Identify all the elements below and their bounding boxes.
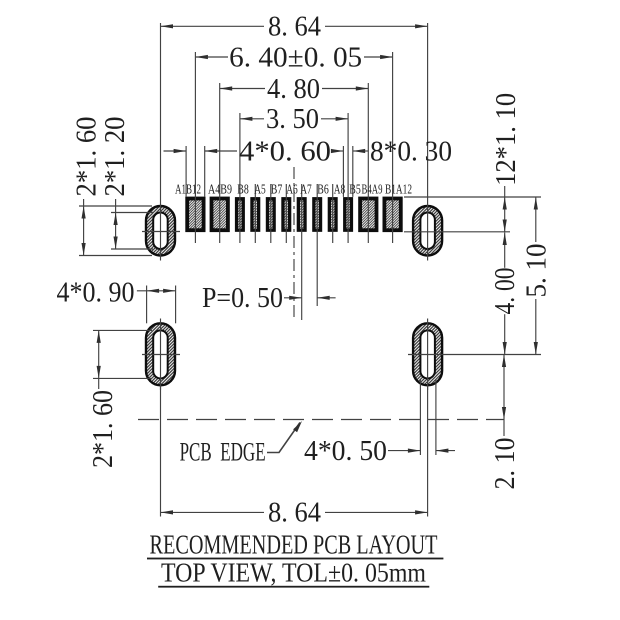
svg-text:8*0. 30: 8*0. 30 [370,136,452,167]
dimension 8.64 top line [161,25,265,27]
extension line pad A1B12 center (6.40 dim) [194,52,196,243]
svg-text:4. 00: 4. 00 [490,268,521,315]
pad B7 [267,199,274,230]
svg-text:2*1. 60: 2*1. 60 [88,390,119,468]
svg-text:PCB EDGE: PCB EDGE [180,437,266,466]
svg-text:A6: A6 [286,183,298,198]
svg-text:A1B12: A1B12 [175,183,201,198]
centerline right ovals stub above bottom oval [427,319,429,391]
dimension 2*1.60 bottom-left line [98,330,100,389]
pad B5 [345,199,352,230]
dimension 8*0.30 arrows [333,150,343,152]
svg-text:2*1. 20: 2*1. 20 [100,117,131,197]
centerline left bottom oval down to dim [160,385,162,516]
dimension P=0.50 arrows [284,297,302,299]
dimension 4.80 line [220,88,265,90]
dimension 12*1.10 line [504,186,506,232]
pad B4A9 [360,199,376,231]
svg-text:8. 64: 8. 64 [268,12,321,43]
svg-text:3. 50: 3. 50 [266,104,319,135]
centerline pad A8 [332,184,334,243]
crosshair top-left oval horizontal [142,231,180,233]
extension line bottom-right oval center [408,354,541,356]
svg-text:B1A12: B1A12 [385,183,412,198]
dimension 2*1.60 top-left line [83,199,85,256]
plated slot hole top-left inner slot [153,213,168,250]
svg-text:RECOMMENDED PCB LAYOUT: RECOMMENDED PCB LAYOUT [150,530,438,560]
svg-text:A7: A7 [300,183,312,198]
extension line pad B1A12 center (6.40 dim) [392,52,394,243]
dimension 8.64 bottom line [161,511,265,513]
extension line bottom-left oval slot top [93,329,152,331]
svg-text:4*0. 90: 4*0. 90 [57,277,135,308]
svg-text:B5: B5 [349,183,361,198]
dimension 6.40±0.05 line [195,56,228,58]
svg-text:12*1. 10: 12*1. 10 [491,93,522,186]
svg-text:A8: A8 [334,183,346,198]
svg-text:P=0. 50: P=0. 50 [202,283,283,314]
extension line pads bottom edge / top-right oval center [404,231,510,233]
plated slot hole bottom-right inner slot [420,330,435,378]
svg-text:B8: B8 [237,183,249,198]
dimension 3.50 line [240,118,264,120]
title underline 2 [158,586,429,588]
title underline 1 [147,558,443,560]
PCB EDGE leader arrow [267,423,300,453]
svg-text:2*1. 60: 2*1. 60 [72,117,103,197]
dimension 4*0.60 arrows [164,150,187,152]
plated slot hole top-right outer pad [413,206,442,256]
svg-text:2. 10: 2. 10 [490,438,521,490]
extension line bottom-left oval slot bottom [93,377,152,379]
PCB edge dashed line [138,419,504,421]
crosshair bottom-left oval horizontal [142,354,180,356]
centerline left ovals vertical top [160,23,162,261]
dimension 2*1.20 line [115,199,117,249]
svg-text:B4A9: B4A9 [362,183,383,198]
extension line pad B4A9 center (4.80 dim) [367,83,369,243]
centerline right ovals vertical top [427,23,429,261]
extension line 4*0.90 right [175,286,177,324]
dimension 5.10 line [535,197,537,242]
extension line 4*0.50 left (slot width) [419,380,421,456]
extension line pad A4B9 center (4.80 dim) [219,83,221,243]
plated slot hole top-right inner slot [420,213,435,250]
extension line pad B5 right edge (8*0.30) [352,146,354,197]
pad A6 [283,199,290,230]
svg-text:B7: B7 [271,183,283,198]
svg-text:B6: B6 [317,183,329,198]
extension line top-left oval outer top [79,205,152,207]
centerline pad B7 [270,184,272,243]
pad A7 [298,199,305,230]
extension line 4*0.50 right (slot width) [435,380,437,456]
centerline left ovals stub above bottom oval [160,319,162,391]
plated slot hole top-left outer pad [146,206,175,256]
svg-text:4*0. 60: 4*0. 60 [239,136,331,167]
plated slot hole bottom-left outer pad [146,323,175,385]
centerline pad A5 [254,184,256,243]
extension line pads top edge right [404,196,541,198]
plated slot hole bottom-left inner slot [153,330,168,378]
pad B6 [314,199,321,230]
dimension 4*0.90 line [137,290,176,292]
pad B8 [237,199,244,230]
svg-text:A4B9: A4B9 [208,183,232,198]
dimension 4.00 line [504,233,506,268]
extension line pad A1B12 right edge (4*0.60) [204,146,206,197]
svg-text:8. 64: 8. 64 [268,498,321,529]
pad A5 [252,199,259,230]
svg-text:A5: A5 [254,183,266,198]
svg-text:4. 80: 4. 80 [267,74,320,105]
centerline right bottom oval down to dim [427,385,429,516]
extension line pad B5 center (3.50 dim) [347,113,349,243]
dimension 2.10 line [503,355,505,437]
extension line top-left oval outer bottom [79,255,152,257]
pad A4B9 [212,199,228,231]
plated slot hole bottom-right outer pad [413,323,442,385]
centerline pad A6 [285,184,287,243]
svg-text:4*0. 50: 4*0. 50 [304,436,387,467]
extension line pad A1B12 left edge (4*0.60) [185,146,187,197]
svg-text:5. 10: 5. 10 [521,244,552,298]
dimension 4*0.50 arrows [388,450,420,452]
pad A8 [329,199,336,230]
svg-text:TOP VIEW, TOL±0. 05mm: TOP VIEW, TOL±0. 05mm [161,558,426,588]
pad B1A12 [384,199,400,231]
extension line top-left oval slot top [111,212,153,214]
extension line pad B6 center (P=0.50 dim) [316,184,318,306]
extension line 4*0.90 left [146,286,148,324]
extension line pad B8 center (3.50 dim) [239,113,241,243]
connector centerline (dash-dot) [293,167,295,317]
extension line top-left oval slot bottom [111,248,153,250]
svg-text:6. 40±0. 05: 6. 40±0. 05 [229,42,362,73]
extension line pad A7 center (P=0.50 dim) [301,184,303,320]
extension line pad B5 left edge (8*0.30) [342,146,344,197]
pad A1B12 [187,199,203,231]
